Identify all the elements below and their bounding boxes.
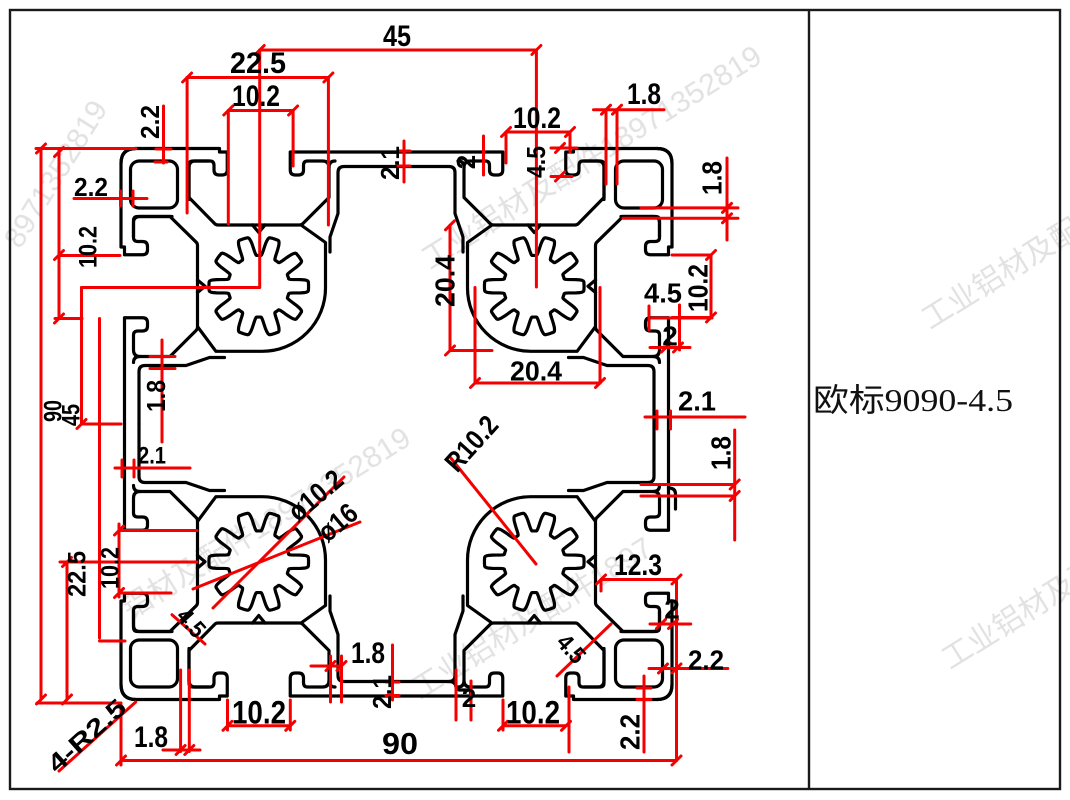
svg-text:90: 90 [382, 726, 418, 761]
red dimension and extension lines [36, 46, 745, 772]
svg-text:欧标9090-4.5: 欧标9090-4.5 [813, 382, 1013, 418]
svg-text:20.4: 20.4 [510, 355, 562, 386]
svg-text:10.2: 10.2 [506, 694, 560, 730]
svg-text:1.8: 1.8 [627, 78, 661, 111]
svg-text:2.2: 2.2 [74, 172, 108, 202]
svg-text:22.5: 22.5 [230, 47, 286, 80]
svg-text:2.1: 2.1 [138, 442, 166, 469]
svg-text:1.8: 1.8 [351, 637, 385, 670]
svg-text:4.5: 4.5 [644, 277, 682, 308]
svg-text:4.5: 4.5 [521, 146, 551, 178]
svg-text:2.2: 2.2 [614, 714, 645, 750]
svg-text:45: 45 [58, 404, 86, 426]
svg-text:2.1: 2.1 [367, 675, 397, 709]
svg-text:10.2: 10.2 [513, 102, 561, 135]
svg-text:10.2: 10.2 [232, 80, 280, 113]
svg-text:20.4: 20.4 [429, 255, 460, 307]
svg-text:1.8: 1.8 [134, 721, 168, 754]
svg-text:45: 45 [383, 20, 411, 53]
svg-text:2.1: 2.1 [678, 385, 716, 416]
black dimension value labels [40, 20, 737, 779]
svg-text:22.5: 22.5 [64, 551, 92, 597]
svg-text:2: 2 [664, 593, 680, 624]
svg-text:1.8: 1.8 [705, 436, 736, 470]
svg-text:2: 2 [451, 155, 481, 169]
svg-text:1.8: 1.8 [141, 380, 171, 412]
svg-text:12.3: 12.3 [614, 549, 662, 582]
svg-text:1.8: 1.8 [696, 161, 727, 195]
svg-text:10.2: 10.2 [97, 547, 125, 589]
svg-text:2: 2 [662, 320, 678, 351]
svg-text:2.1: 2.1 [375, 146, 405, 180]
svg-text:2.2: 2.2 [688, 644, 724, 675]
svg-text:10.2: 10.2 [682, 264, 713, 312]
svg-text:10.2: 10.2 [232, 694, 286, 730]
svg-text:2: 2 [462, 683, 476, 713]
svg-text:2.2: 2.2 [135, 105, 165, 139]
svg-text:10.2: 10.2 [75, 226, 103, 268]
aluminium extrusion profile cross-section (4 quadrants) [121, 149, 676, 700]
